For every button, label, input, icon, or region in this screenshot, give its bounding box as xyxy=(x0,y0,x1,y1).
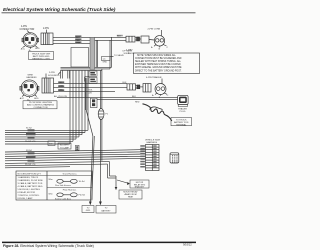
svg-text:BLK: BLK xyxy=(76,37,81,39)
svg-text:3 CABLE, BATTERY POS: 3 CABLE, BATTERY POS xyxy=(18,182,43,185)
svg-text:TO LAMP: TO LAMP xyxy=(60,146,69,149)
svg-text:SEALED WITH HEAT SHRINK TUBING: SEALED WITH HEAT SHRINK TUBING. ALL xyxy=(135,60,182,63)
svg-text:SW: SW xyxy=(49,144,52,146)
svg-text:9/16/12: 9/16/12 xyxy=(183,243,192,247)
svg-text:EXPOSED TERMINALS MUST BE COAT: EXPOSED TERMINALS MUST BE COATED xyxy=(135,63,181,66)
svg-text:HEAT: HEAT xyxy=(128,196,134,199)
svg-text:CONNECTOR: CONNECTOR xyxy=(33,107,47,109)
svg-text:U2O: U2O xyxy=(88,92,93,94)
svg-text:2-PIN CONN: 2-PIN CONN xyxy=(148,28,161,30)
svg-text:2-PIN: 2-PIN xyxy=(43,28,49,30)
svg-text:BATTERY: BATTERY xyxy=(101,209,111,212)
svg-text:BRN: BRN xyxy=(59,90,64,92)
svg-text:RED: RED xyxy=(76,40,81,42)
svg-text:HARNESS CONN: HARNESS CONN xyxy=(32,57,50,60)
svg-text:TO VALVE: TO VALVE xyxy=(114,54,124,57)
svg-text:BRACKET: BRACKET xyxy=(135,186,145,189)
svg-text:3-PIN: 3-PIN xyxy=(49,72,55,74)
svg-text:SOLENOID: SOLENOID xyxy=(124,53,135,55)
svg-text:7 SWITCH, CONTROL: 7 SWITCH, CONTROL xyxy=(18,195,41,197)
svg-text:GRD: GRD xyxy=(103,62,108,64)
svg-text:ACC: ACC xyxy=(20,97,25,100)
svg-text:S3 S4: S3 S4 xyxy=(26,150,33,152)
svg-text:BLK: BLK xyxy=(132,96,137,98)
svg-text:ACC: ACC xyxy=(21,47,26,50)
svg-text:2 HARNESS, PLOW SIDE: 2 HARNESS, PLOW SIDE xyxy=(18,179,44,182)
svg-text:BLK: BLK xyxy=(117,36,122,38)
svg-text:Truck Harness: Truck Harness xyxy=(62,172,77,175)
svg-text:4 CABLE, BATTERY NEG: 4 CABLE, BATTERY NEG xyxy=(18,185,43,188)
svg-text:GRN: GRN xyxy=(59,86,64,88)
svg-text:WITH GREASE. GROUND WIRES MUST: WITH GREASE. GROUND WIRES MUST BE xyxy=(135,66,182,69)
svg-text:Battery Cable Assy: Battery Cable Assy xyxy=(55,197,71,200)
svg-text:GRD: GRD xyxy=(35,48,40,50)
svg-text:RED: RED xyxy=(135,101,140,103)
svg-text:PLOW LTS: PLOW LTS xyxy=(25,164,36,166)
svg-text:4-PIN: 4-PIN xyxy=(21,26,27,28)
svg-text:AND CONTROL HARNESS: AND CONTROL HARNESS xyxy=(27,103,55,106)
svg-text:1 HARNESS, TRUCK: 1 HARNESS, TRUCK xyxy=(18,176,39,179)
svg-text:Plow Harness: Plow Harness xyxy=(63,189,77,192)
svg-text:6 RELAY, MOTOR: 6 RELAY, MOTOR xyxy=(18,191,36,194)
svg-text:GRN: GRN xyxy=(76,43,81,45)
svg-text:4-PIN TRAILER: 4-PIN TRAILER xyxy=(146,76,162,79)
svg-text:PLUG: PLUG xyxy=(180,111,186,113)
svg-text:Electrical System Wiring Schem: Electrical System Wiring Schematic (Truc… xyxy=(3,7,116,13)
svg-text:Plow Side Harness: Plow Side Harness xyxy=(55,184,71,187)
svg-text:TERMINAL: TERMINAL xyxy=(176,124,187,127)
svg-text:DIRECT TO THE BATTERY GROUND P: DIRECT TO THE BATTERY GROUND POST. xyxy=(135,70,182,73)
svg-text:TO: TO xyxy=(105,208,108,210)
svg-text:GRD: GRD xyxy=(34,98,39,100)
svg-text:Figure 28. Electrical System W: Figure 28. Electrical System Wiring Sche… xyxy=(3,244,94,248)
svg-text:8 FUSE, 5 AMP: 8 FUSE, 5 AMP xyxy=(18,197,34,200)
svg-text:GRD: GRD xyxy=(86,210,91,212)
svg-text:5 MODULE, LIGHTING: 5 MODULE, LIGHTING xyxy=(18,189,41,191)
svg-text:TO: TO xyxy=(87,207,90,209)
svg-text:Plw Sd: Plw Sd xyxy=(79,195,85,197)
svg-text:BLK: BLK xyxy=(123,82,128,84)
svg-text:CONNECTIONS MUST BE SOLDERED A: CONNECTIONS MUST BE SOLDERED AND xyxy=(135,57,182,60)
svg-text:Trk Sd: Trk Sd xyxy=(79,181,85,183)
svg-text:NO DESCRIPTION QTY: NO DESCRIPTION QTY xyxy=(18,173,42,175)
svg-text:HARNESS: HARNESS xyxy=(147,141,158,144)
svg-text:NOTE: WHEN SPLICING WIRES ALL: NOTE: WHEN SPLICING WIRES ALL xyxy=(137,54,177,57)
svg-text:PLOW LTS: PLOW LTS xyxy=(25,141,36,143)
svg-text:HARNESS: HARNESS xyxy=(27,76,38,79)
svg-text:SOLENOID: SOLENOID xyxy=(48,75,60,77)
